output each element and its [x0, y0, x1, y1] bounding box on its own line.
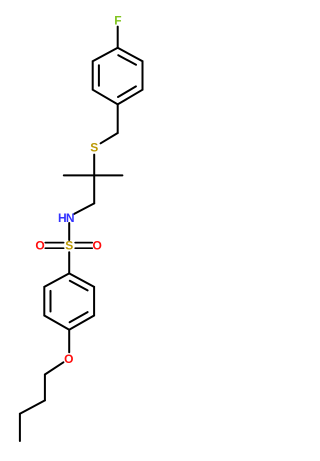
double bond S=O right line1 — [75, 242, 92, 244]
svg-text:S: S — [90, 141, 98, 155]
bond C-CH2 — [93, 175, 95, 203]
double bond S=O left line2 — [45, 247, 63, 249]
ring2 double bond inner line bottom-right edge — [70, 312, 88, 322]
benzene ring 1 (4-fluorophenyl) outer hexagon — [93, 48, 143, 105]
bond CH2-N — [74, 203, 94, 214]
ring2 double bond inner line left edge — [50, 291, 52, 312]
svg-text:S: S — [65, 239, 73, 253]
bond O-CH2 butyl — [45, 362, 64, 374]
ring2 double bond inner line top-right edge — [70, 281, 88, 291]
ring1 double bond inner line left edge — [98, 65, 100, 86]
svg-text:F: F — [114, 14, 121, 28]
bond S-C(ring2 top) — [68, 252, 70, 273]
bond CH2-CH2 butyl — [44, 375, 46, 401]
double bond S=O right line2 — [75, 247, 92, 249]
bond ring1-CH2 (benzylic) — [117, 104, 119, 133]
bond C-CH3 left methyl — [64, 174, 94, 176]
svg-text:O: O — [35, 239, 44, 253]
benzene ring 2 (4-butoxyphenyl) outer hexagon — [44, 273, 94, 329]
svg-text:O: O — [64, 352, 73, 366]
bond N-S sulfonyl — [68, 223, 70, 240]
double bond S=O left line1 — [45, 242, 63, 244]
bond S-C quaternary — [93, 155, 95, 176]
bond CH2-CH3 butyl terminal — [19, 414, 21, 441]
svg-text:O: O — [93, 239, 102, 253]
ring1 double bond inner line top-right edge — [118, 55, 136, 65]
bond ring2-O ether — [68, 330, 70, 353]
bond F-C(ring1 top) — [117, 27, 119, 48]
bond C-CH3 right methyl — [94, 174, 122, 176]
ring1 double bond inner line bottom-right edge — [118, 86, 136, 97]
bond CH2-CH2 butyl diagonal — [20, 400, 45, 413]
bond CH2-S thioether — [101, 133, 118, 143]
svg-text:N: N — [66, 211, 75, 225]
